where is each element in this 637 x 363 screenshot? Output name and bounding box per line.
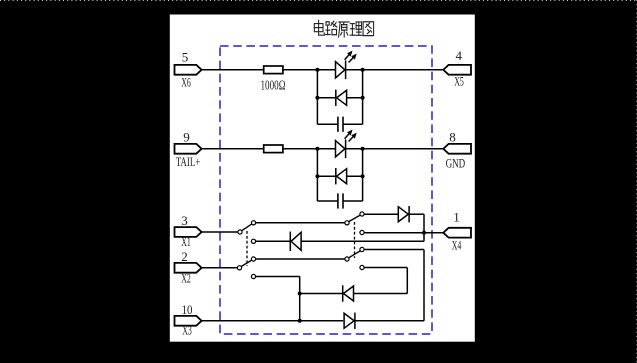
svg-text:2: 2: [181, 249, 188, 264]
svg-text:4: 4: [455, 48, 462, 63]
svg-text:X6: X6: [181, 76, 191, 90]
svg-text:3: 3: [181, 213, 188, 228]
svg-text:5: 5: [182, 49, 189, 64]
svg-text:X2: X2: [181, 271, 191, 285]
svg-text:1000Ω: 1000Ω: [261, 78, 286, 93]
svg-text:X5: X5: [454, 74, 464, 88]
svg-text:TAIL+: TAIL+: [176, 155, 201, 169]
svg-text:GND: GND: [446, 156, 466, 170]
svg-text:X3: X3: [182, 324, 192, 338]
svg-text:10: 10: [182, 302, 193, 317]
svg-text:X1: X1: [181, 235, 191, 249]
svg-text:8: 8: [449, 129, 456, 144]
svg-text:1: 1: [453, 209, 460, 224]
svg-text:9: 9: [183, 129, 190, 144]
svg-text:X4: X4: [452, 239, 462, 253]
